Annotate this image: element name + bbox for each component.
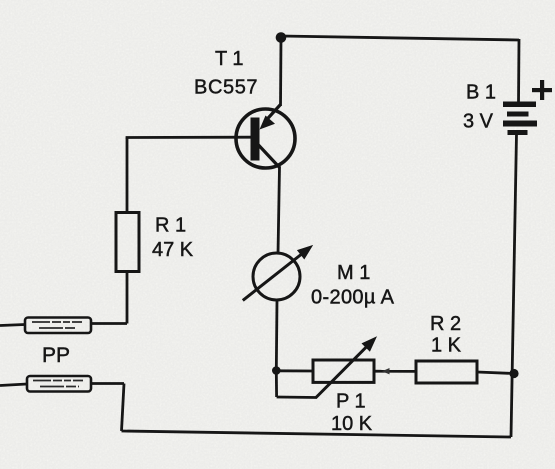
meter M1 circle xyxy=(253,253,300,300)
transistor collector lead xyxy=(258,145,280,169)
wire: bottom rail xyxy=(122,431,512,437)
svg-text:BC557: BC557 xyxy=(194,77,258,99)
resistor R1 47K (box) xyxy=(116,213,139,272)
wire: junction down to wiper bend xyxy=(275,371,278,398)
plus sign for battery polarity xyxy=(532,88,552,92)
probe PP1 (upper test probe) xyxy=(25,318,91,334)
battery B1 plate 3 (long) xyxy=(503,121,537,127)
svg-text:47 K: 47 K xyxy=(152,239,194,261)
svg-text:P 1: P 1 xyxy=(336,391,366,413)
wire: R1 top to base corner xyxy=(126,138,129,213)
svg-text:1 K: 1 K xyxy=(431,335,462,357)
svg-text:R 1: R 1 xyxy=(155,215,186,237)
wire: wiper horizontal xyxy=(277,396,317,399)
battery B1 plate 2 (short) xyxy=(507,112,529,117)
svg-text:B 1: B 1 xyxy=(466,82,496,104)
svg-text:10 K: 10 K xyxy=(331,413,373,435)
resistor R2 1K (box) xyxy=(416,361,477,383)
wire: top rail from node to battery xyxy=(281,36,519,40)
wire: right vertical from top rail to battery + plate xyxy=(517,39,520,103)
battery B1 plate 4 (short, -) xyxy=(508,130,528,135)
wire: collector vertical down to meter xyxy=(278,167,280,254)
svg-text:PP: PP xyxy=(42,344,70,367)
meter arrow xyxy=(243,253,303,300)
node C (junction dot right rail) xyxy=(509,369,518,378)
potentiometer P1 10K body (box) xyxy=(313,360,374,382)
wire: probe 1 left lead xyxy=(0,325,25,326)
wire: probe 2 right lead xyxy=(91,382,124,385)
wire: emitter vertical from node A down to T1 xyxy=(279,38,282,107)
battery B1 plate 1 (long, +) xyxy=(503,102,536,108)
small arrow mark on wire xyxy=(382,368,390,374)
wire: right vertical from battery - plate down to bottom rail xyxy=(511,134,517,437)
svg-text:0-200µ A: 0-200µ A xyxy=(311,287,395,309)
wire: P1 right to R2 left xyxy=(374,370,416,373)
svg-text:M 1: M 1 xyxy=(337,262,370,284)
wire: probe 1 right lead xyxy=(91,322,127,325)
potentiometer P1 wiper arrow diagonal xyxy=(316,345,368,397)
probe PP2 (lower test probe) xyxy=(27,376,91,392)
svg-text:T 1: T 1 xyxy=(215,48,244,70)
wire: left bottom vertical up to probe 2 xyxy=(122,384,125,432)
node A (junction dot top, emitter/top-rail) xyxy=(276,32,287,43)
wire: probe 2 left lead xyxy=(0,384,27,386)
svg-text:3 V: 3 V xyxy=(463,111,494,133)
transistor base bar xyxy=(251,118,260,161)
wire: vertical probe1 to R1 bottom xyxy=(126,271,129,324)
transistor Q1/T1 BC557 circle xyxy=(236,109,295,168)
wire: meter bottom to junction xyxy=(275,300,279,371)
svg-text:R 2: R 2 xyxy=(430,313,461,335)
wire: R2 right to right rail xyxy=(477,372,514,374)
wire: base horizontal to T1 xyxy=(126,136,252,139)
wire: junction to P1 left xyxy=(276,369,313,372)
transistor emitter lead (with PNP arrow into base) xyxy=(265,105,281,122)
node B (junction dot left of P1) xyxy=(272,366,281,375)
